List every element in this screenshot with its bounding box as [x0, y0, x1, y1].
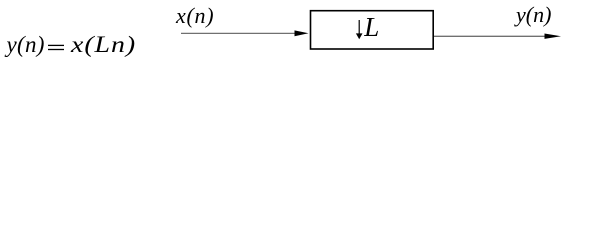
node label x(n) — [176, 3, 214, 29]
input arrowhead — [295, 30, 309, 36]
down-arrow glyph of block label — [356, 20, 363, 39]
output arrowhead — [545, 34, 562, 39]
downsampler block rect — [311, 11, 434, 49]
node label y(n) — [516, 2, 551, 28]
equation y(n)=x(Ln) : left-hand side — [7, 32, 45, 58]
wire input x(n) — [181, 32, 297, 34]
equals sign of equation — [48, 45, 64, 49]
svg-text:L: L — [363, 12, 379, 42]
wire output y(n) — [434, 35, 547, 37]
equation right-hand side x(Ln) — [71, 32, 136, 58]
